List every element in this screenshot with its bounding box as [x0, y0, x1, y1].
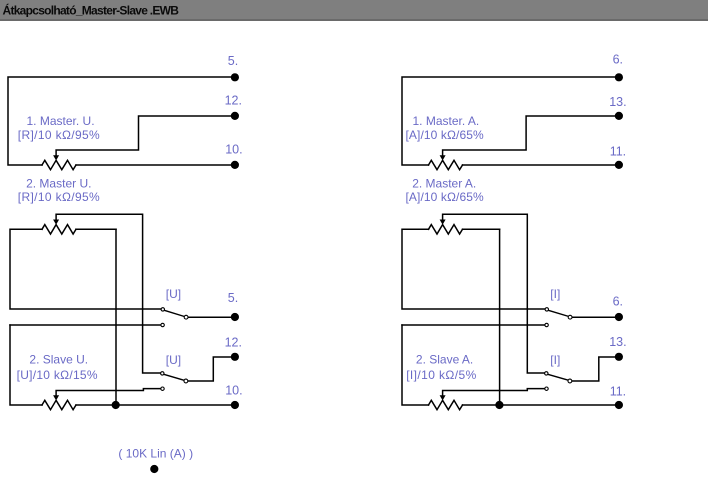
svg-text:2. Master A.: 2. Master A.	[412, 176, 476, 190]
svg-text:[A]/10 kΩ/65%: [A]/10 kΩ/65%	[406, 190, 485, 204]
svg-text:Átkapcsolható_Master-Slave .EW: Átkapcsolható_Master-Slave .EWB	[3, 3, 180, 18]
svg-text:5.: 5.	[228, 291, 238, 305]
svg-text:2. Slave A.: 2. Slave A.	[416, 353, 473, 367]
svg-text:( 10K Lin (A) ): ( 10K Lin (A) )	[118, 447, 193, 461]
svg-text:[A]/10 kΩ/65%: [A]/10 kΩ/65%	[406, 128, 485, 142]
svg-text:5.: 5.	[228, 54, 238, 68]
svg-text:2. Master U.: 2. Master U.	[26, 176, 91, 190]
svg-text:10.: 10.	[225, 384, 242, 398]
svg-text:1. Master. U.: 1. Master. U.	[27, 114, 95, 128]
svg-text:[I]: [I]	[550, 287, 560, 301]
svg-text:12.: 12.	[225, 336, 242, 350]
svg-text:13.: 13.	[609, 335, 626, 349]
svg-text:[U]: [U]	[166, 353, 181, 367]
svg-text:1. Master. A.: 1. Master. A.	[413, 114, 480, 128]
svg-text:[R]/10 kΩ/95%: [R]/10 kΩ/95%	[18, 190, 100, 204]
svg-text:13.: 13.	[609, 95, 626, 109]
svg-text:[I]: [I]	[550, 353, 560, 367]
svg-text:[I]/10 kΩ/5%: [I]/10 kΩ/5%	[406, 368, 476, 382]
svg-text:11.: 11.	[610, 384, 626, 398]
svg-text:6.: 6.	[613, 53, 623, 67]
svg-text:10.: 10.	[225, 143, 242, 157]
svg-text:2. Slave U.: 2. Slave U.	[29, 353, 88, 367]
svg-text:6.: 6.	[613, 294, 623, 308]
svg-text:[U]/10 kΩ/15%: [U]/10 kΩ/15%	[17, 368, 98, 382]
svg-text:[U]: [U]	[166, 287, 181, 301]
svg-text:11.: 11.	[610, 145, 626, 159]
svg-text:12.: 12.	[225, 93, 242, 107]
svg-text:[R]/10 kΩ/95%: [R]/10 kΩ/95%	[18, 128, 100, 142]
